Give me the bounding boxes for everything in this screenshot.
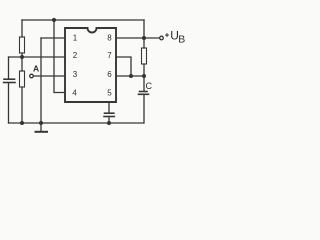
wire R1 bottom lead (21, 53, 23, 57)
terminal A (30, 74, 34, 78)
wire bottom ground rail (9, 122, 144, 124)
svg-text:1: 1 (73, 33, 78, 42)
node pin7/pin6 junction (129, 74, 133, 78)
svg-text:7: 7 (107, 51, 112, 60)
node pin1/ground rail junction (39, 121, 43, 125)
wire R3 bottom lead (21, 87, 23, 123)
wire pin1 to ground rail (40, 38, 42, 123)
wire left cap top lead (8, 57, 10, 79)
node R2/pin6/C junction (142, 74, 146, 78)
svg-text:5: 5 (107, 89, 112, 98)
wire pin4 bus (54, 20, 65, 93)
wire pin1 row (41, 37, 65, 39)
wire R1 top lead (21, 20, 23, 37)
wire pin2 row (9, 56, 66, 58)
capacitor C2 (105, 112, 114, 114)
svg-text:2: 2 (73, 51, 78, 60)
svg-text:3: 3 (73, 70, 78, 79)
resistor R2 (142, 48, 147, 64)
svg-text:B: B (178, 34, 185, 46)
capacitor C1 (4, 78, 15, 80)
wire pin7 row (116, 57, 131, 76)
wire pin6 row (116, 75, 144, 77)
svg-text:6: 6 (107, 70, 112, 79)
wire C top lead (143, 76, 145, 91)
wire top supply rail (22, 19, 144, 21)
node R3/ground rail junction (20, 121, 24, 125)
wire C bottom lead (143, 95, 145, 123)
wire R2 top lead (143, 38, 145, 48)
resistor R1 (20, 37, 25, 53)
wire pin5 cap top lead (108, 102, 110, 113)
resistor R3 (20, 71, 25, 87)
IC U1 (8-pin timer body with notch) (65, 28, 116, 102)
wire left cap bottom lead (8, 83, 10, 123)
wire pin3 row (34, 75, 65, 77)
svg-text:4: 4 (72, 89, 77, 98)
node C2/ground rail junction (107, 121, 111, 125)
capacitor C (140, 91, 148, 93)
wire pin5 cap bottom lead (108, 117, 110, 123)
node supply/pin4 bus junction (52, 18, 56, 22)
wire R2 bottom lead (143, 64, 145, 76)
ground (40, 123, 42, 132)
node R1/R3/pin2 junction (20, 55, 24, 59)
terminal UB (160, 36, 164, 40)
wire pin8 row (116, 37, 160, 39)
wire R3 top lead (21, 57, 23, 71)
wire supply down segment (143, 20, 145, 38)
svg-text:C: C (146, 81, 153, 91)
svg-text:8: 8 (107, 33, 112, 42)
node pin8/supply junction (142, 36, 146, 40)
svg-text:A: A (33, 63, 39, 73)
label +UB (165, 33, 169, 37)
